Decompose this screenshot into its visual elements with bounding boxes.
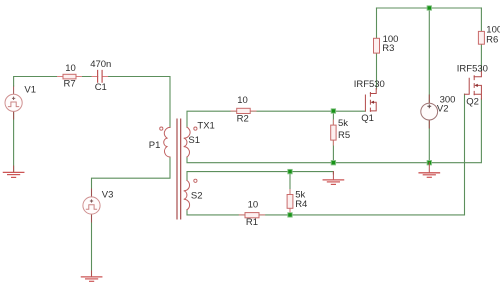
lead: R5 red leads bbox=[332, 120, 334, 145]
svg-text:TX1: TX1 bbox=[197, 121, 214, 132]
svg-text:R2: R2 bbox=[237, 114, 249, 125]
svg-text:5k: 5k bbox=[338, 118, 348, 129]
lead: V1 bottom red bbox=[13, 111, 15, 119]
wire: S2 bottom along y214.9 through R1 bbox=[187, 94, 465, 215]
resistor R6 bbox=[478, 31, 484, 44]
wire: C1 to P1 corner bbox=[102, 77, 170, 128]
source V1 bbox=[5, 94, 22, 111]
wire: R6 column down to Q2 drain bbox=[480, 8, 482, 71]
transformer primary P1 winding bbox=[164, 127, 170, 157]
junction node (gate wire / R5) bbox=[331, 109, 335, 113]
svg-text:V1: V1 bbox=[24, 84, 36, 95]
svg-text:S2: S2 bbox=[191, 191, 203, 202]
svg-text:R6: R6 bbox=[486, 34, 498, 45]
svg-text:10: 10 bbox=[248, 199, 259, 210]
junction node (y171.6 / R4 top) bbox=[288, 169, 292, 173]
junction node (y163 / V2 minus) bbox=[427, 161, 431, 165]
wire: P1 bottom lead down and left to V3 bbox=[92, 157, 171, 197]
wire: S1 bottom along y163 to Q2 source bbox=[187, 99, 481, 163]
transistor Q2 bbox=[465, 72, 482, 100]
junction node (y163 / R5 bottom) bbox=[331, 161, 335, 165]
wire: S2 top lead along y171.6 bbox=[187, 172, 333, 181]
lead: R7 red leads bbox=[58, 76, 82, 78]
transformer secondary S1 winding bbox=[184, 127, 190, 157]
wire: V1 to R7 horizontal bbox=[14, 77, 63, 87]
wire: V1 bottom to ground bbox=[13, 111, 15, 171]
junction node (y214.9 / R4 bottom) bbox=[288, 213, 292, 217]
transistor Q1 bbox=[365, 89, 376, 112]
ground (middle, S2-top net) bbox=[323, 172, 343, 185]
svg-text:470n: 470n bbox=[90, 59, 111, 70]
svg-text:P1: P1 bbox=[149, 140, 161, 151]
resistor R1 bbox=[245, 213, 259, 218]
lead: V3 bottom red bbox=[91, 214, 93, 222]
phase dot S1 bbox=[194, 127, 197, 130]
lead: V3 top red bbox=[91, 189, 93, 197]
phase dot S2 bbox=[194, 179, 197, 182]
source V3 bbox=[83, 197, 100, 214]
capacitor C1 bbox=[98, 71, 103, 83]
svg-text:10: 10 bbox=[237, 95, 248, 106]
wire: V1 top lead up bbox=[13, 86, 15, 94]
svg-text:R1: R1 bbox=[246, 217, 258, 228]
wire: R7 to C1 bbox=[76, 76, 98, 78]
svg-text:C1: C1 bbox=[95, 82, 107, 93]
wire: R5 branch vertical bbox=[332, 111, 334, 163]
svg-text:Q1: Q1 bbox=[361, 113, 374, 124]
resistor R7 bbox=[63, 74, 76, 79]
lead: R2 red leads bbox=[231, 110, 256, 112]
svg-text:V3: V3 bbox=[102, 189, 114, 200]
wire: V2 bottom to y163 bbox=[428, 120, 430, 163]
wire: V2 column bbox=[428, 8, 430, 103]
svg-text:Q2: Q2 bbox=[466, 97, 479, 108]
lead: R4 red leads bbox=[289, 190, 291, 214]
transformer secondary S2 winding bbox=[184, 181, 190, 210]
svg-text:10: 10 bbox=[65, 63, 76, 74]
resistor R5 bbox=[331, 125, 336, 140]
lead: R1 red leads bbox=[239, 214, 264, 216]
svg-text:IRF530: IRF530 bbox=[354, 79, 385, 90]
resistor R2 bbox=[237, 108, 251, 113]
resistor R3 bbox=[374, 38, 380, 53]
resistor R4 bbox=[287, 195, 293, 209]
phase dot P1 bbox=[160, 127, 163, 130]
svg-text:R3: R3 bbox=[382, 43, 394, 54]
lead: V2 bottom red bbox=[428, 120, 430, 128]
transformer TX1 core bbox=[177, 119, 181, 219]
lead: C1 red leads bbox=[92, 76, 108, 78]
svg-text:IRF530: IRF530 bbox=[457, 63, 488, 74]
svg-text:S1: S1 bbox=[188, 135, 200, 146]
wire: top rail R3 to R6 bbox=[377, 7, 482, 9]
wire: R4 branch vertical bbox=[289, 172, 291, 215]
svg-text:R5: R5 bbox=[338, 130, 350, 141]
ground (below V3) bbox=[81, 271, 101, 281]
wire: R3 column down to Q1 drain bbox=[376, 8, 378, 89]
lead: V2 top red bbox=[428, 95, 430, 103]
svg-text:R7: R7 bbox=[64, 79, 76, 90]
svg-text:V2: V2 bbox=[437, 104, 449, 115]
wire: V3 bottom to ground bbox=[91, 214, 93, 276]
source V2 bbox=[421, 103, 438, 120]
ground (below V1) bbox=[3, 166, 23, 177]
ground (below V2) bbox=[419, 163, 439, 178]
svg-text:R4: R4 bbox=[295, 199, 307, 210]
junction node (top rail / V2) bbox=[427, 6, 431, 10]
wire: S1 top lead to R2 to Q1 gate bbox=[187, 111, 365, 127]
